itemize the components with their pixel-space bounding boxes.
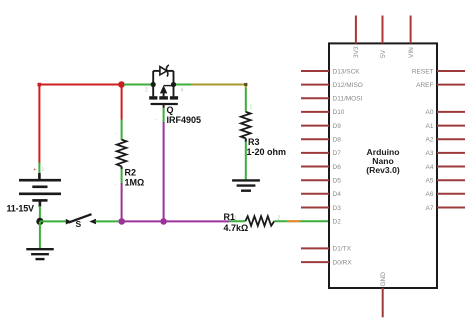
svg-text:D7: D7	[333, 150, 342, 157]
svg-text:D5: D5	[333, 178, 342, 185]
svg-text:A6: A6	[426, 191, 434, 198]
mosfet substrate line	[164, 85, 174, 87]
wire junction to ground green	[39, 221, 41, 249]
left pin labels	[333, 68, 363, 266]
wire mosfet drain green	[174, 84, 192, 86]
svg-text:1: 1	[42, 167, 45, 173]
pin VIN	[410, 16, 412, 44]
mosfet channel bars	[149, 96, 178, 99]
wire switch to purple junction green	[96, 220, 122, 222]
svg-text:D4: D4	[333, 191, 342, 198]
wire corner square olive	[244, 83, 247, 86]
svg-text:R2: R2	[125, 168, 137, 178]
svg-text:-: -	[115, 182, 117, 188]
svg-text:D12/MISO: D12/MISO	[333, 82, 363, 89]
svg-text:-: -	[115, 131, 117, 137]
node battery junction black	[36, 218, 43, 225]
wire R2 top red	[121, 85, 123, 121]
wire R2 top green	[121, 120, 123, 141]
wire battery bottom green	[39, 206, 41, 221]
svg-text:1MΩ: 1MΩ	[125, 178, 145, 188]
wire junction to switch green	[40, 220, 66, 222]
resistor R2 lead black	[121, 166, 123, 169]
resistor R1	[245, 216, 274, 226]
node purple junction left	[118, 218, 125, 225]
wire R2 bottom purple	[121, 183, 123, 221]
svg-text:A3: A3	[426, 150, 434, 157]
mosfet body diode triangle	[160, 67, 167, 75]
svg-text:A0: A0	[426, 109, 434, 116]
svg-text:4: 4	[181, 88, 184, 94]
svg-text:D1/TX: D1/TX	[333, 246, 352, 253]
svg-text:D13/SCK: D13/SCK	[333, 68, 361, 75]
mosfet gate stub black	[163, 104, 165, 109]
mosfet gate line	[151, 103, 178, 105]
svg-text:-: -	[156, 117, 158, 123]
pin 3V3	[355, 16, 357, 44]
wire junction to mosfet source green	[124, 84, 153, 86]
svg-text:(Rev3.0): (Rev3.0)	[366, 165, 400, 175]
wire R2 bottom green	[121, 169, 123, 184]
svg-text:D8: D8	[333, 137, 342, 144]
wire gate green	[163, 108, 165, 123]
svg-text:D2: D2	[333, 218, 342, 225]
svg-text:D11/MOSI: D11/MOSI	[333, 96, 363, 103]
wire R3 top green	[245, 89, 247, 113]
svg-text:D0/RX: D0/RX	[333, 259, 353, 266]
faint pin marks	[42, 88, 281, 222]
svg-text:1-20 ohm: 1-20 ohm	[247, 147, 287, 157]
svg-text:S: S	[76, 219, 82, 229]
svg-text:D9: D9	[333, 123, 342, 130]
svg-text:A2: A2	[426, 137, 434, 144]
right pins group	[437, 71, 465, 208]
svg-text:A5: A5	[426, 178, 434, 185]
svg-text:IRF4905: IRF4905	[167, 115, 202, 125]
svg-text:D6: D6	[333, 164, 342, 171]
svg-text:3V3: 3V3	[353, 46, 360, 58]
svg-text:D3: D3	[333, 205, 342, 212]
resistor R3 lead black	[245, 138, 247, 142]
ground battery	[26, 249, 53, 259]
svg-text:R3: R3	[248, 137, 260, 147]
svg-text:2: 2	[145, 88, 148, 94]
svg-text:2: 2	[278, 216, 281, 222]
svg-text:+: +	[33, 168, 37, 174]
wire left vertical red	[38, 85, 40, 164]
mosfet substrate arrow	[160, 85, 167, 93]
switch S hinge chevron	[66, 219, 72, 225]
wire endpoint square top-left	[38, 83, 42, 87]
wire R1 to D2 green	[274, 220, 329, 222]
switch S right arrow	[89, 219, 96, 224]
wire gate purple	[163, 122, 165, 221]
resistor R3	[241, 112, 251, 138]
battery BAT1	[19, 173, 61, 207]
pin 5V	[382, 16, 384, 44]
mosfet middle stub	[163, 89, 165, 96]
right pin labels	[412, 68, 434, 212]
svg-text:1: 1	[234, 216, 237, 222]
wire top horizontal red	[39, 84, 121, 86]
svg-text:GND: GND	[380, 272, 387, 287]
svg-text:Q: Q	[167, 105, 174, 115]
switch S lever	[69, 214, 92, 222]
svg-text:4.7kΩ: 4.7kΩ	[224, 223, 249, 233]
pin GND	[382, 288, 384, 317]
wire battery top green	[38, 163, 40, 174]
transistor Q1 IRF4905 mosfet	[153, 71, 173, 97]
left pins group	[301, 71, 329, 262]
svg-text:VIN: VIN	[408, 47, 415, 58]
wire R1 left green	[229, 220, 245, 222]
svg-text:1: 1	[250, 105, 253, 111]
op-amp U1 arduino nano body	[329, 43, 437, 288]
svg-text:5V: 5V	[380, 49, 387, 58]
wire R3 bottom green	[245, 142, 247, 181]
mosfet body diode cathode curve	[166, 65, 168, 77]
svg-text:RESET: RESET	[412, 68, 434, 75]
resistor R2	[117, 140, 127, 167]
svg-text:A7: A7	[426, 205, 434, 212]
svg-text:A1: A1	[426, 123, 434, 130]
node purple junction gate	[160, 218, 167, 225]
ground R3	[232, 180, 260, 190]
svg-text:A4: A4	[426, 164, 434, 171]
node junction top red	[118, 81, 125, 88]
svg-text:11-15V: 11-15V	[7, 204, 35, 214]
wire drain to R3 olive	[191, 85, 246, 90]
node mosfet drain dot	[171, 82, 176, 87]
svg-text:D10: D10	[333, 109, 345, 116]
node mosfet source dot	[151, 82, 156, 87]
wire bottom horizontal purple	[122, 220, 230, 222]
wire D2 overlap orange	[287, 220, 301, 222]
svg-text:AREF: AREF	[416, 82, 433, 89]
